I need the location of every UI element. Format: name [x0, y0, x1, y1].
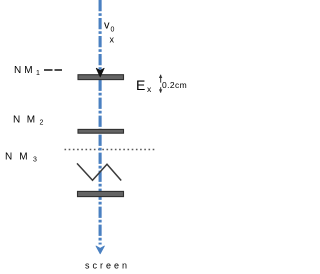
plate P1 (top gray bar) — [78, 75, 124, 80]
dimension arrow up — [159, 74, 162, 78]
svg-text:2: 2 — [40, 120, 44, 127]
dimension line (right of P1, lower part) — [160, 87, 162, 92]
axis line segment C (blue dash-dot, P2 to arrow) — [99, 133, 102, 244]
svg-text:screen: screen — [85, 261, 130, 271]
svg-text:3: 3 — [33, 157, 37, 164]
dotted reference line — [65, 149, 156, 151]
svg-text:NM: NM — [14, 65, 36, 76]
svg-text:1: 1 — [36, 70, 40, 77]
svg-text:NM: NM — [13, 115, 42, 126]
svg-text:x: x — [147, 84, 152, 94]
dimension arrow down — [159, 89, 162, 93]
break zigzag (on axis between P2 and P3) — [77, 163, 121, 180]
leader dash 2 — [55, 69, 63, 71]
beam arrowhead (black, tip on plate P1) — [96, 68, 104, 77]
dimension line (right of P1, upper part) — [160, 75, 162, 83]
arrowhead (blue, bottom of axis) — [96, 246, 104, 254]
svg-text:NM: NM — [5, 152, 35, 163]
svg-text:E: E — [136, 77, 145, 93]
plate P3 (bottom gray bar) — [78, 191, 124, 196]
svg-text:v: v — [104, 20, 110, 32]
svg-text:x: x — [110, 35, 115, 45]
axis line segment B (blue dash-dot, P1 to P2) — [99, 80, 102, 130]
svg-text:0: 0 — [111, 27, 115, 34]
plate P2 (middle gray bar) — [78, 129, 124, 133]
leader dash 1 — [44, 69, 53, 71]
axis line segment A (blue dash-dot, top to plate P1) — [99, 0, 102, 75]
svg-text:0.2cm: 0.2cm — [162, 80, 187, 90]
